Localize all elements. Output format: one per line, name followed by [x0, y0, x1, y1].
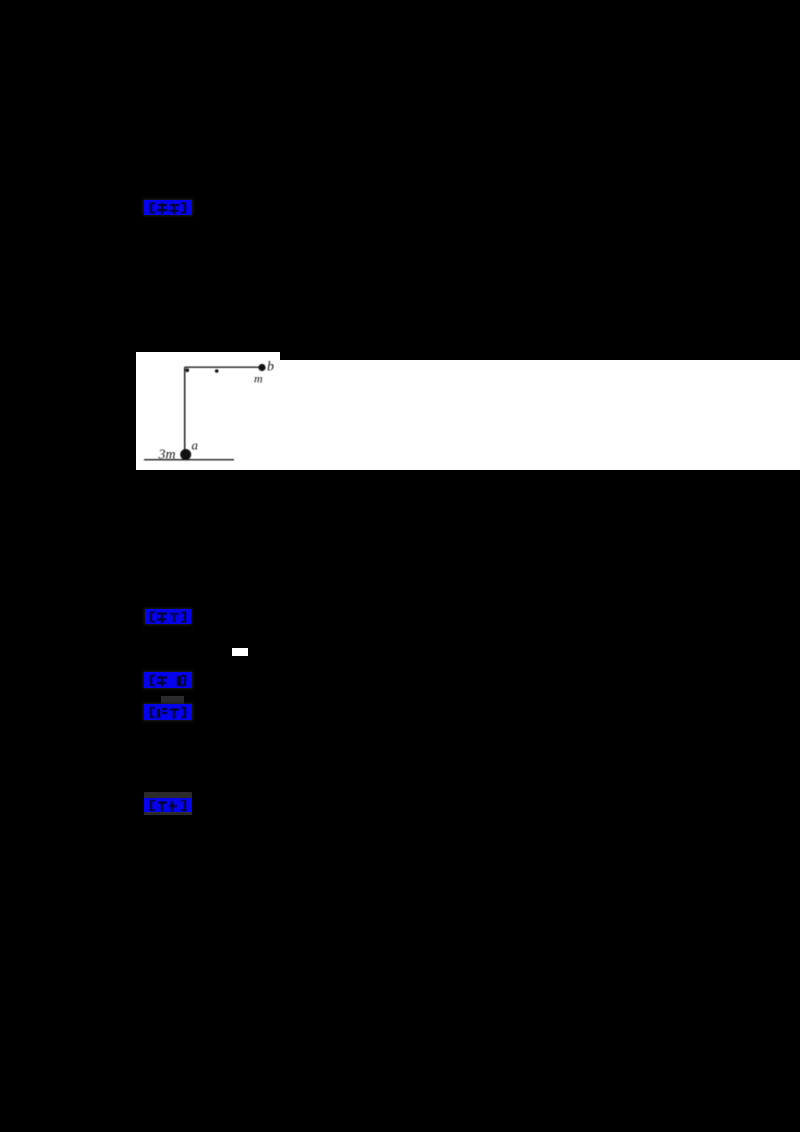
svg-text:b: b: [267, 360, 274, 375]
svg-text:3m: 3m: [158, 448, 176, 463]
svg-text:a: a: [192, 438, 199, 453]
svg-text:m: m: [254, 372, 263, 386]
